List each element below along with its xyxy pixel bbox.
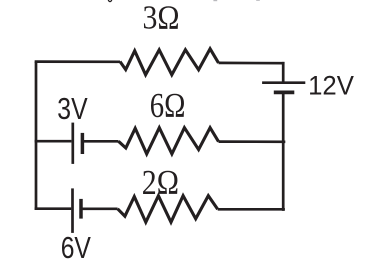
wire: battery B2 to resistor R3 [81,207,117,210]
svg-text:6V: 6V [61,230,91,265]
cropped faint mark at top edge left [213,0,217,1]
wire: right rail upper segment into battery B3 [282,62,285,82]
resistor R3 2 ohm zigzag [118,196,218,223]
wire: left vertical rail with top-left corner [35,62,38,210]
svg-text:3Ω: 3Ω [143,0,180,36]
battery B2 6V short plate (-) [79,199,83,219]
cropped text fragment at top edge (descender loop) [108,0,112,2]
wire: resistor R2 to right rail (node junction) [219,140,286,143]
cropped faint mark at top edge right [256,0,260,1]
svg-text:6Ω: 6Ω [150,86,186,125]
battery B2 6V long plate (+) [71,188,74,233]
svg-text:2Ω: 2Ω [142,163,179,202]
wire: battery B1 to resistor R2 [83,140,119,143]
battery B3 12V short plate (-) [274,91,295,95]
wire: top branch, left rail to resistor R1 [35,60,120,63]
svg-text:12V: 12V [308,71,354,101]
wire: resistor R3 to bottom-right corner [218,208,285,211]
battery B3 12V long plate (+) [262,81,305,84]
resistor R1 3 ohm zigzag [120,49,219,75]
battery B1 3V short plate (-) [81,133,85,154]
wire: right rail lower segment, battery B3 to bottom-right corner [282,93,285,211]
svg-text:3V: 3V [57,92,88,126]
wire: resistor R1 to top-right corner [219,62,285,65]
resistor R2 6 ohm zigzag [119,128,219,154]
wire: bottom branch, left rail to battery B2 [35,207,72,210]
battery B1 3V long plate (+) [71,123,74,164]
wire: middle branch, left rail to battery B1 [35,140,72,143]
